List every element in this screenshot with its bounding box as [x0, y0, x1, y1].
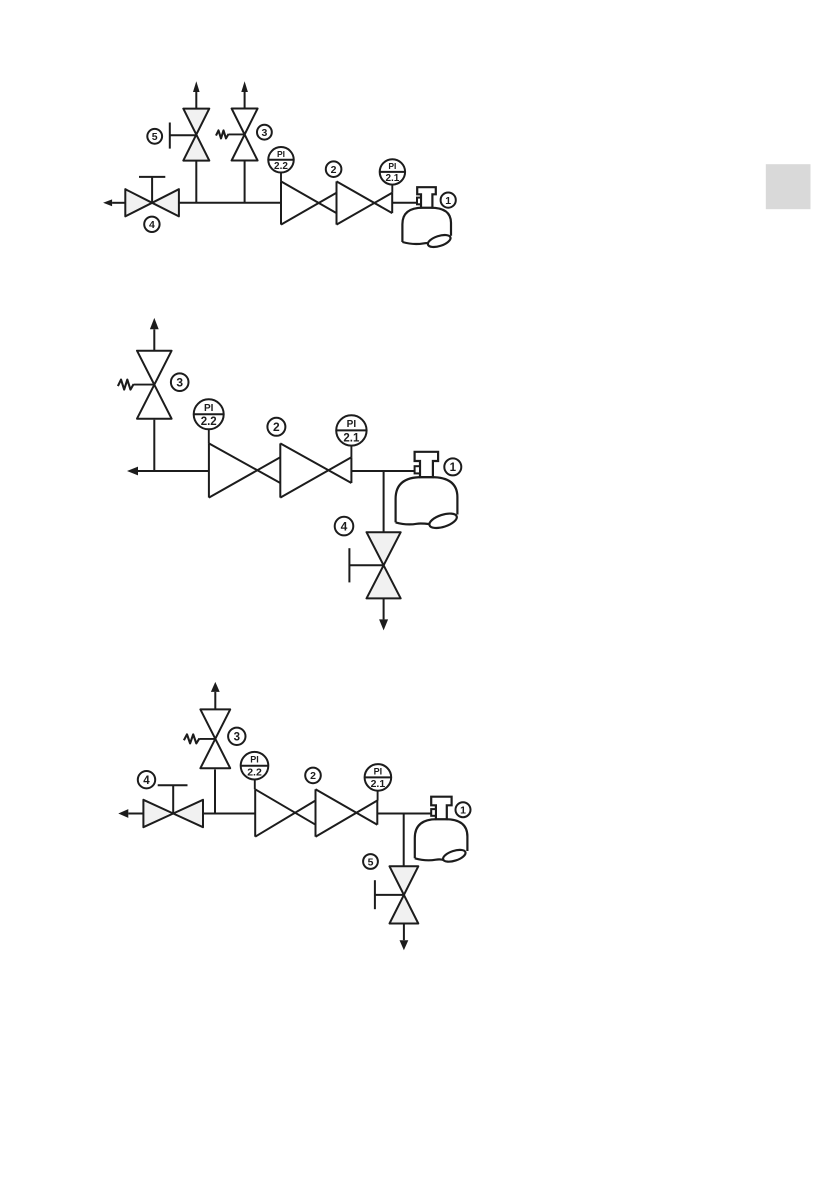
svg-text:2.2: 2.2 — [247, 767, 262, 779]
gauge PI 2.2 (D1) — [280, 173, 282, 182]
D3 wire branch down to valve 5 — [403, 814, 405, 868]
pressure regulator 2 (D1) — [280, 181, 282, 224]
label 3 (D2) — [171, 373, 189, 391]
D2 wire branch down to valve 4 — [383, 471, 385, 533]
label 5 (D1) — [147, 129, 162, 144]
valve V5 (D3) — [390, 866, 419, 895]
label 4 (D2) — [335, 517, 354, 536]
D1 outlet wire with left arrow — [112, 202, 125, 204]
svg-text:2.2: 2.2 — [274, 161, 288, 172]
svg-text:2: 2 — [331, 164, 337, 176]
D1 wire branch to relief valve 3 — [244, 162, 246, 203]
svg-text:PI: PI — [250, 755, 259, 765]
svg-text:PI: PI — [204, 403, 214, 414]
handle of valve V5 (D3) — [374, 880, 376, 909]
svg-text:3: 3 — [176, 376, 183, 390]
D1 wire branch to valve 5 — [195, 162, 197, 203]
vent arrow above relief valve V3 (D3) — [214, 692, 216, 710]
D1 main pipe wire (valve 4 to regulator) — [179, 202, 281, 204]
svg-text:1: 1 — [450, 462, 457, 474]
relief valve V3 (D1) — [232, 109, 258, 135]
gray sidebar marker — [766, 164, 811, 209]
D1 wire regulator to cylinder — [392, 202, 417, 204]
handle of valve V5 (D1) — [169, 123, 171, 149]
svg-text:PI: PI — [374, 766, 383, 776]
svg-text:1: 1 — [460, 804, 466, 816]
gauge PI 2.1 (D3) — [377, 791, 379, 801]
D3 wire branch to relief valve 3 — [214, 770, 216, 814]
svg-text:PI: PI — [347, 419, 357, 430]
svg-text:2: 2 — [310, 770, 316, 782]
svg-text:4: 4 — [143, 775, 150, 787]
handle of valve V4 (D3) — [172, 785, 174, 813]
gauge PI 2.2 (D2) — [208, 429, 210, 443]
label 3 (D3) — [228, 728, 245, 745]
drain arrow below valve V5 (D3) — [403, 924, 405, 941]
D3 wire regulator to cylinder — [377, 813, 431, 815]
svg-text:4: 4 — [149, 219, 155, 231]
label 4 (D1) — [144, 217, 159, 232]
D2 wire branch to relief valve 3 — [153, 420, 155, 471]
svg-text:2.2: 2.2 — [201, 416, 217, 428]
svg-text:5: 5 — [152, 131, 158, 143]
D2 outlet wire with left arrow — [138, 470, 209, 472]
handle of valve V4 (D1) — [151, 177, 153, 203]
label 4 (D3) — [138, 771, 155, 788]
D2 wire regulator to cylinder — [351, 470, 414, 472]
gauge PI 2.2 (D3) — [254, 780, 256, 790]
svg-text:4: 4 — [341, 519, 348, 533]
relief valve V3 (D2) — [137, 351, 172, 385]
label 5 (D3) — [363, 854, 378, 869]
label 1 (D3) — [456, 802, 471, 817]
svg-text:3: 3 — [261, 127, 267, 139]
svg-text:PI: PI — [388, 161, 396, 171]
label 2 (D2) — [267, 418, 285, 436]
valve V5 (D1) — [183, 109, 209, 135]
valve V4 (D3) — [143, 800, 173, 827]
svg-text:2: 2 — [273, 420, 280, 434]
spring of relief valve V3 (D2) — [118, 380, 134, 390]
pressure regulator 2 (D2) — [208, 443, 210, 497]
cylinder 1 (D2) — [396, 477, 458, 522]
gauge PI 2.1 (D2) — [350, 446, 352, 458]
label 2 (D1) — [326, 161, 342, 177]
spring of relief valve V3 (D3) — [184, 734, 200, 743]
drain arrow below valve V4 (D2) — [383, 598, 385, 619]
svg-text:1: 1 — [445, 195, 451, 207]
label 2 (D3) — [305, 768, 321, 784]
vent arrow above valve V5 (D1) — [195, 92, 197, 109]
svg-text:5: 5 — [368, 856, 374, 868]
handle of valve V4 (D2) — [348, 548, 350, 582]
label 3 (D1) — [257, 125, 272, 140]
gauge PI 2.1 (D1) — [391, 185, 393, 193]
vent arrow above relief valve V3 (D1) — [244, 92, 246, 109]
D3 main pipe wire (valve 4 to regulator) — [203, 813, 255, 815]
vent arrow above relief valve V3 (D2) — [153, 329, 155, 350]
D3 outlet wire with left arrow — [128, 813, 143, 815]
svg-text:PI: PI — [277, 149, 285, 159]
spring of relief valve V3 (D1) — [216, 130, 229, 138]
pressure regulator 2 (D3) — [254, 789, 256, 836]
svg-text:2.1: 2.1 — [371, 778, 386, 790]
cylinder 1 (D3) — [415, 819, 468, 858]
label 1 (D1) — [441, 193, 456, 208]
relief valve V3 (D3) — [200, 709, 230, 738]
cylinder 1 (D1) — [402, 208, 451, 242]
svg-text:3: 3 — [234, 731, 240, 743]
svg-text:2.1: 2.1 — [385, 173, 399, 184]
svg-text:2.1: 2.1 — [343, 432, 360, 444]
valve V4 (D2) — [367, 532, 401, 565]
valve V4 (D1) — [125, 189, 152, 216]
label 1 (D2) — [444, 458, 461, 475]
